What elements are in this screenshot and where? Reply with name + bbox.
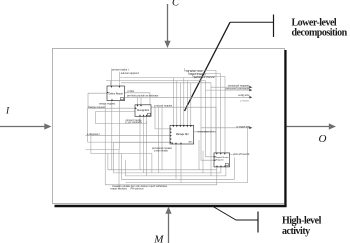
- wire long horizontal h6: [121, 83, 211, 176]
- box shadow right: [284, 50, 286, 207]
- svg-text:decomposition: decomposition: [292, 28, 348, 39]
- activity box A3 manage report: [170, 125, 194, 144]
- svg-text:M: M: [153, 233, 164, 243]
- wire top cluster row3 to v225: [193, 77, 225, 153]
- wire A1 estimate long line to exit 3: [125, 96, 250, 98]
- input arrow I: [0, 126, 45, 128]
- box shadow bottom: [55, 205, 287, 208]
- wire A3 bottom to loops: [175, 144, 177, 179]
- wire top cluster row1 to v216: [185, 70, 216, 152]
- wire second drop: [161, 107, 163, 170]
- wire top verticals to A1: [110, 69, 112, 87]
- wire below A1 vertical: [111, 101, 113, 170]
- svg-text:activity: activity: [282, 226, 310, 237]
- control arrow C: [167, 4, 169, 42]
- wire bottom loop 4: [122, 153, 235, 179]
- svg-text:performed channel: performed channel: [194, 76, 215, 79]
- svg-text:Report Route: Report Route: [216, 156, 230, 159]
- wire A3 top columns: [172, 78, 174, 126]
- svg-text:remember when: remember when: [198, 130, 217, 133]
- wire A2 top feeds: [137, 97, 139, 105]
- leader horizontal top: [230, 21, 274, 23]
- svg-text:Define Report: Define Report: [109, 92, 124, 95]
- wire A2 right to A4 top: [151, 107, 216, 153]
- activity box A1 define report plan: [107, 86, 125, 101]
- wire print-off stub: [230, 154, 233, 156]
- svg-text:C: C: [172, 0, 180, 9]
- wire A3-left top arrow stub: [155, 107, 170, 129]
- wire A3 below verticals: [198, 140, 200, 170]
- wire long horizontal h5: [106, 81, 214, 157]
- wire left long vertical: [104, 105, 106, 185]
- svg-text:a-dig wins: a-dig wins: [238, 94, 250, 97]
- mechanism arrow M: [168, 214, 170, 243]
- svg-text:p report text: p report text: [237, 125, 251, 128]
- svg-text:print-off record: print-off record: [233, 153, 250, 156]
- svg-text:present tasks r: present tasks r: [112, 69, 129, 72]
- wire bottom loop 5: [126, 128, 248, 183]
- svg-text:p folio: p folio: [128, 90, 135, 93]
- svg-text:report services: report services: [111, 188, 128, 191]
- wire bottom loop 2: [114, 142, 221, 173]
- svg-text:telecom append: telecom append: [121, 72, 139, 75]
- leader tick top: [273, 15, 275, 38]
- svg-text:merge request: merge request: [99, 102, 115, 105]
- activity box A2 recognition: [135, 105, 151, 117]
- wire below A1 vertical 2: [119, 101, 121, 150]
- wire long horizontal h4: [120, 78, 214, 161]
- svg-text:p win emails: p win emails: [154, 150, 169, 153]
- svg-text:p yor contracts: p yor contracts: [126, 121, 143, 124]
- svg-text:O: O: [319, 133, 327, 145]
- svg-text:change request: change request: [88, 106, 106, 109]
- svg-text:Recognition: Recognition: [137, 109, 150, 112]
- svg-text:pre-limit provide an estimate: pre-limit provide an estimate: [127, 95, 159, 98]
- wire loop2 top link to A3: [114, 141, 170, 143]
- wire change request line to A2-left, down to A3-left: [88, 108, 170, 142]
- wire bottom loop 1: [108, 153, 217, 169]
- wire A1 right p folio: [125, 93, 151, 105]
- svg-text:I: I: [5, 107, 10, 117]
- leader diagonal to lower-level decomposition: [185, 22, 231, 111]
- wire exit 1 line: [211, 86, 250, 88]
- wire A2-left second from left riser: [96, 112, 147, 124]
- svg-text:personnel commands: personnel commands: [226, 88, 251, 91]
- output arrow O: [287, 126, 330, 128]
- svg-text:PH war text: PH war text: [131, 188, 144, 191]
- wire exit 4 line: [201, 127, 250, 129]
- wire lower-left line: [86, 150, 120, 189]
- wire A4 bottom sub-loop: [105, 167, 217, 185]
- wire A2 bottom to loops: [139, 116, 141, 170]
- svg-text:p record request: p record request: [154, 105, 173, 108]
- exit arrowheads: [249, 86, 252, 129]
- wire drop below p-record: [158, 107, 160, 173]
- svg-text:p report: p report: [240, 100, 249, 103]
- svg-text:Register: Register: [216, 158, 224, 161]
- high-level activity box: [53, 49, 285, 204]
- wire top cluster row2 to v220.5: [188, 74, 220, 153]
- leader tick bottom: [257, 212, 259, 233]
- wire exit 2 line: [206, 89, 250, 91]
- wire label cluster ticks: [184, 68, 186, 71]
- wire A1-left stub: [88, 93, 107, 108]
- svg-text:a disposal r: a disposal r: [87, 133, 100, 136]
- tiny wire labels: [87, 69, 250, 191]
- wire bottom loop 3: [126, 160, 226, 176]
- activity box A4 report route register: [214, 153, 230, 167]
- wire A3 right remember-when: [194, 131, 211, 133]
- svg-text:Manage Rpt: Manage Rpt: [176, 133, 189, 136]
- leader diagonal to high-level activity: [213, 207, 258, 221]
- wire A4-left line 2 from left: [91, 136, 152, 173]
- wire a-disposal line to A3-left: [86, 135, 171, 137]
